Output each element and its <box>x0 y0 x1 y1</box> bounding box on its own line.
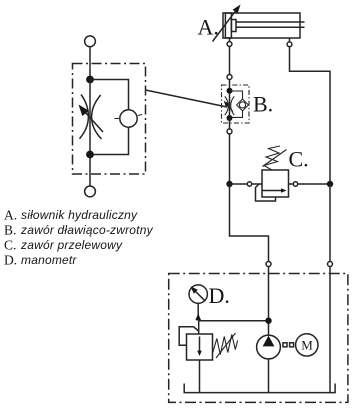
flow arrow at gauge tap <box>195 314 201 321</box>
pump flow triangle <box>263 336 275 347</box>
wire to valve <box>198 321 200 334</box>
svg-text:zawór przelewowy: zawór przelewowy <box>20 238 123 252</box>
svg-text:A.: A. <box>4 208 17 223</box>
wire to C inlet <box>230 183 263 185</box>
port (B top) <box>227 75 232 80</box>
node: junction left of C <box>226 181 232 187</box>
svg-text:D.: D. <box>209 283 230 308</box>
svg-text:zawór dławiąco-zwrotny: zawór dławiąco-zwrotny <box>20 223 154 237</box>
svg-text:D.: D. <box>4 253 17 268</box>
leader line from detail view to valve B <box>146 90 228 107</box>
node: B bottom junction <box>227 115 233 121</box>
check valve (B): ball in diamond seat <box>237 99 249 111</box>
svg-text:B.: B. <box>253 92 273 117</box>
spring (C) <box>264 146 280 170</box>
wire <box>229 80 231 119</box>
wire: B to node <box>229 134 231 184</box>
wire <box>89 158 91 186</box>
spring <box>213 335 238 355</box>
pilot line (C) <box>256 184 276 201</box>
pump <box>257 335 281 359</box>
wire: check branch (B) <box>230 91 243 99</box>
wire: left column jog to pump <box>230 184 269 262</box>
wire: pump to tank <box>268 359 270 393</box>
node: bottom junction (detail) <box>86 151 94 159</box>
spring adjustment arrow (C) <box>263 150 287 167</box>
node: B top junction <box>227 88 233 94</box>
port (pump line at power unit) <box>266 262 271 267</box>
wire: C outlet to right column <box>289 183 331 185</box>
shaft coupling <box>283 343 287 347</box>
wire <box>268 267 270 336</box>
wire: rod end to right column <box>290 47 331 184</box>
wire: cap end down to valve B <box>229 46 231 74</box>
B enclosure (dashed box) <box>222 85 250 123</box>
port (cylinder cap end) <box>229 38 231 42</box>
wire: check-valve branch (detail) <box>90 80 129 110</box>
seat tick right <box>138 115 142 116</box>
port (C right) <box>293 182 297 186</box>
wire: right return column <box>329 184 331 262</box>
port (C left) <box>247 182 251 186</box>
pilot line <box>179 327 199 345</box>
valve C body <box>262 170 289 197</box>
throttle restrictor arcs (B) <box>225 96 229 115</box>
node: pump junction <box>265 318 271 324</box>
port (cylinder rod end) <box>289 38 291 42</box>
node: top junction (detail) <box>86 76 94 84</box>
node: junction right column <box>327 181 333 187</box>
detail enclosure (dash-dot box) <box>73 64 146 175</box>
adjustment arrow (detail throttle) <box>85 112 104 133</box>
seat tick left <box>115 118 120 120</box>
wire: main line through throttle (detail) <box>89 80 91 155</box>
gauge body <box>189 285 207 303</box>
wire: supply header <box>198 320 268 322</box>
svg-text:manometr: manometr <box>21 253 77 267</box>
svg-text:M: M <box>301 338 313 353</box>
port (bottom, detail view) <box>85 186 96 197</box>
internal flow arrow (C) <box>263 190 283 192</box>
wire: gauge stem <box>197 303 199 320</box>
svg-text:C.: C. <box>289 147 309 172</box>
port (B bottom) <box>227 129 232 134</box>
wire: valve drain to tank <box>199 360 201 393</box>
internal flow arrow (down) <box>199 337 201 352</box>
gauge needle <box>194 289 206 301</box>
leader arrow for A <box>213 12 236 42</box>
motor M <box>296 334 318 356</box>
svg-text:B.: B. <box>4 223 16 238</box>
piston rod <box>236 21 305 23</box>
valve body <box>187 334 213 360</box>
svg-text:C.: C. <box>4 238 16 253</box>
port (top, detail view) <box>85 36 96 47</box>
rod collar <box>231 20 236 32</box>
wire <box>89 47 91 77</box>
svg-text:A.: A. <box>198 15 219 40</box>
port (right line at power unit) <box>328 262 333 267</box>
throttle restrictor arcs (detail) <box>80 95 89 139</box>
cylinder barrel <box>223 13 300 38</box>
svg-text:siłownik hydrauliczny: siłownik hydrauliczny <box>21 208 138 222</box>
spring adjustment arrow <box>216 333 236 358</box>
wire <box>329 267 331 393</box>
check valve ball (detail) <box>120 110 137 127</box>
piston <box>225 13 231 38</box>
adjustment arrow (B throttle) <box>227 105 233 111</box>
wire <box>229 118 231 129</box>
